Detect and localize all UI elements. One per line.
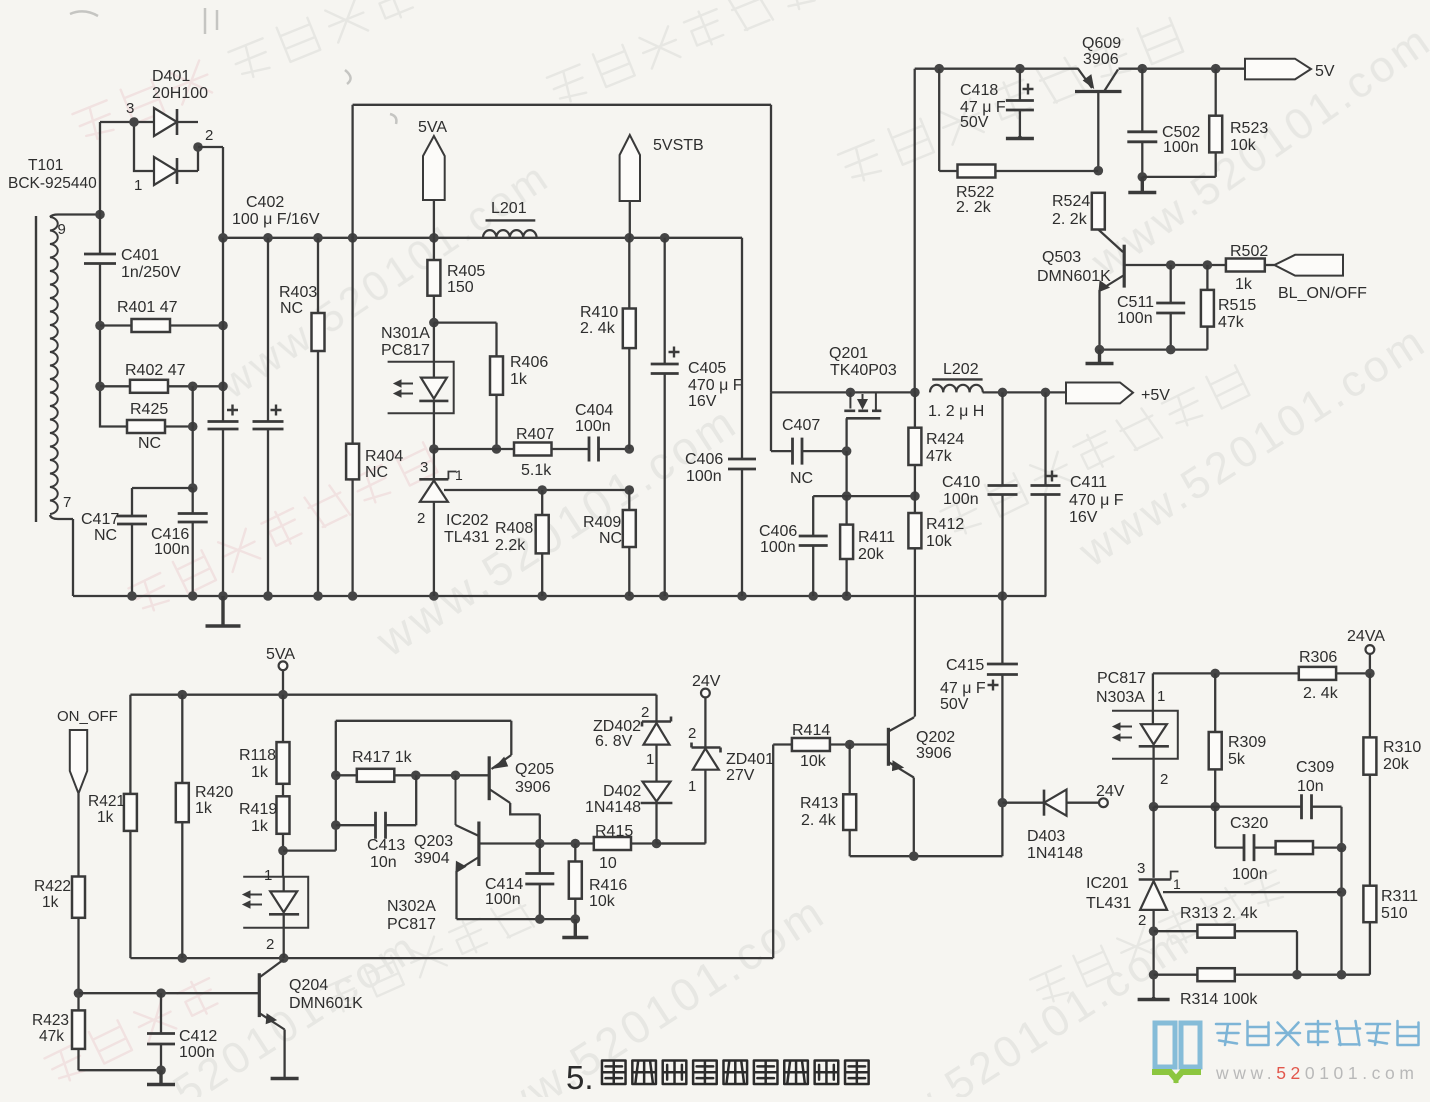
node	[625, 485, 635, 495]
junction	[625, 591, 635, 601]
svg-text:47k: 47k	[926, 448, 953, 465]
wire right edge	[772, 745, 774, 959]
label 5VSTB	[653, 137, 704, 154]
wire	[50, 515, 73, 596]
svg-text:6. 8V: 6. 8V	[595, 733, 633, 750]
junction	[660, 233, 670, 243]
svg-text:R408: R408	[495, 520, 533, 537]
pin 2	[205, 127, 213, 144]
label C404	[575, 402, 613, 435]
capacitor (x268)	[253, 405, 284, 430]
svg-text:5.: 5.	[566, 1059, 594, 1096]
svg-text:R310: R310	[1383, 739, 1421, 756]
wire	[192, 488, 194, 596]
pin 2	[1160, 771, 1168, 788]
svg-text:1k: 1k	[97, 809, 114, 826]
resistor R406	[490, 356, 503, 449]
label N302A	[387, 898, 436, 933]
resistor R425	[127, 420, 193, 433]
svg-text:20k: 20k	[858, 546, 885, 563]
label R405	[447, 263, 485, 296]
label N303A	[1096, 670, 1146, 706]
svg-text:D403: D403	[1027, 828, 1065, 845]
capacitor C406	[728, 238, 756, 596]
zener ZD401	[692, 697, 721, 769]
label Q201	[829, 345, 897, 379]
label C413	[367, 837, 405, 871]
svg-text:NC: NC	[365, 464, 388, 481]
wire 24VA rail	[1153, 672, 1370, 674]
resistor R502	[1226, 259, 1275, 272]
label R414	[792, 722, 830, 770]
svg-text:1k: 1k	[251, 818, 269, 835]
svg-text:1: 1	[688, 778, 696, 795]
svg-text:2.2k: 2.2k	[495, 537, 526, 554]
label R404	[365, 448, 403, 481]
svg-text:10n: 10n	[1297, 778, 1324, 795]
transistor Q204	[259, 960, 284, 1078]
pin 1	[688, 778, 696, 795]
wire	[457, 918, 576, 920]
node	[74, 988, 84, 998]
svg-text:47k: 47k	[39, 1028, 64, 1045]
node	[1149, 926, 1159, 936]
label 5VA	[418, 119, 447, 136]
resistor R314	[1154, 968, 1370, 981]
resistor R524	[1092, 193, 1105, 230]
svg-text:NC: NC	[790, 470, 813, 487]
junction	[313, 591, 323, 601]
caption: 5. secondary switching power supply circuit	[566, 1059, 869, 1096]
svg-text:R421: R421	[88, 793, 125, 810]
svg-text:R407: R407	[516, 426, 554, 443]
label Q204	[289, 977, 363, 1012]
label C418	[960, 82, 1006, 131]
svg-text:R423: R423	[32, 1012, 69, 1029]
svg-text:5VA: 5VA	[266, 646, 295, 663]
node	[652, 839, 662, 849]
svg-text:2. 4k: 2. 4k	[1303, 685, 1339, 702]
node	[1337, 970, 1347, 980]
node	[95, 382, 105, 392]
wire	[99, 265, 101, 387]
svg-text:R306: R306	[1299, 649, 1337, 666]
label R402	[125, 362, 186, 379]
svg-text:R410: R410	[580, 304, 618, 321]
svg-text:R401 47: R401 47	[117, 299, 178, 316]
svg-text:NC: NC	[94, 527, 117, 544]
wire	[983, 391, 1066, 393]
svg-text:1: 1	[646, 751, 654, 768]
label R412	[926, 516, 964, 550]
svg-text:TK40P03: TK40P03	[830, 362, 897, 379]
node	[411, 771, 421, 781]
ground	[271, 1077, 299, 1079]
node	[218, 382, 228, 392]
svg-text:470 μ F: 470 μ F	[1069, 492, 1124, 509]
capacitor C406 (second)	[799, 496, 828, 596]
wire	[132, 488, 193, 596]
wire TL431 ref	[1163, 891, 1342, 893]
diode D401 top	[154, 108, 198, 136]
svg-text:C406: C406	[685, 451, 723, 468]
node	[909, 851, 919, 861]
node	[998, 388, 1008, 398]
label C405	[688, 360, 743, 410]
svg-text:DMN601K: DMN601K	[289, 995, 363, 1012]
svg-text:D402: D402	[603, 783, 641, 800]
optocoupler N303A box	[1112, 711, 1178, 759]
svg-text:ON_OFF: ON_OFF	[57, 708, 118, 725]
svg-text:5VA: 5VA	[418, 119, 447, 136]
node	[535, 914, 545, 924]
wire	[771, 391, 915, 393]
svg-text:100n: 100n	[1117, 310, 1153, 327]
svg-text:3906: 3906	[515, 779, 551, 796]
pin 1	[1157, 688, 1165, 705]
node	[188, 382, 198, 392]
svg-text:16V: 16V	[1069, 509, 1098, 526]
transformer T101 core	[35, 216, 37, 522]
svg-text:R311: R311	[1381, 888, 1418, 905]
node	[1149, 802, 1159, 812]
label R425	[130, 401, 168, 452]
svg-text:7: 7	[63, 494, 71, 511]
label R411	[858, 529, 895, 563]
svg-text:1N4148: 1N4148	[1027, 845, 1083, 862]
capacitor C413	[336, 775, 416, 838]
resistor R423	[72, 1010, 161, 1070]
resistor R309	[1209, 673, 1222, 806]
label T101	[8, 157, 97, 192]
svg-text:100n: 100n	[154, 541, 190, 558]
terminal ON_OFF	[70, 730, 87, 877]
resistor R410	[623, 238, 636, 449]
svg-text:C410: C410	[942, 474, 980, 491]
svg-text:1k: 1k	[195, 800, 213, 817]
svg-text:R309: R309	[1228, 734, 1266, 751]
capacitor C309	[1302, 794, 1312, 819]
svg-text:R313 2. 4k: R313 2. 4k	[1180, 905, 1258, 922]
wire	[100, 386, 127, 426]
pin 1	[264, 867, 272, 884]
ground	[562, 919, 588, 937]
svg-text:PC817: PC817	[1097, 670, 1146, 687]
node	[492, 444, 502, 454]
resistor R407	[514, 443, 552, 456]
label R421	[88, 793, 125, 826]
junction	[348, 233, 358, 243]
svg-text:PC817: PC817	[381, 342, 430, 359]
resistor R408	[536, 490, 549, 596]
wire TL431 ref	[444, 489, 629, 491]
resistor (C320 series)	[1254, 841, 1342, 854]
label R415	[595, 823, 633, 872]
resistor R310	[1363, 673, 1376, 885]
label R413	[800, 795, 838, 829]
svg-text:C417: C417	[81, 511, 119, 528]
optocoupler N302A arrows	[243, 891, 262, 908]
diode D401 bottom	[154, 147, 198, 185]
node	[625, 444, 635, 454]
capacitor C320	[1244, 834, 1254, 861]
resistor R403	[312, 238, 325, 596]
node	[1094, 166, 1104, 176]
svg-text:C406: C406	[759, 523, 797, 540]
node	[1210, 802, 1220, 812]
wire	[813, 495, 915, 497]
label R420	[195, 784, 233, 817]
wire	[222, 238, 224, 596]
svg-text:R413: R413	[800, 795, 838, 812]
svg-text:1k: 1k	[42, 894, 59, 911]
label +5V	[1141, 387, 1170, 404]
svg-text:TL431: TL431	[444, 529, 489, 546]
ground	[147, 1070, 175, 1084]
node D401-2	[193, 142, 203, 152]
svg-text:R416: R416	[589, 877, 627, 894]
label C320	[1230, 815, 1268, 883]
resistor R413	[843, 745, 1002, 857]
wire	[192, 386, 194, 488]
ground	[206, 596, 241, 626]
label R406	[510, 354, 548, 388]
TL431 IC201	[1139, 807, 1179, 997]
capacitor C412	[147, 993, 175, 1070]
pin 2	[688, 725, 696, 742]
svg-text:1: 1	[1157, 688, 1165, 705]
label C402	[232, 194, 320, 228]
svg-text:N303A: N303A	[1096, 689, 1145, 706]
svg-text:R405: R405	[447, 263, 485, 280]
svg-text:2: 2	[688, 725, 696, 742]
wire	[434, 448, 514, 450]
wire	[99, 122, 101, 254]
svg-text:R404: R404	[365, 448, 403, 465]
label R416	[589, 877, 627, 910]
svg-text:100n: 100n	[686, 468, 722, 485]
svg-text:1: 1	[455, 467, 463, 483]
node	[188, 422, 198, 432]
pin 9 label	[58, 221, 66, 238]
node	[188, 483, 198, 493]
terminal 24V	[1099, 798, 1108, 807]
node	[279, 953, 289, 963]
svg-text:10n: 10n	[370, 854, 397, 871]
svg-text:3: 3	[126, 100, 134, 117]
inductor L202	[930, 379, 983, 392]
optocoupler N303A arrows	[1113, 723, 1132, 741]
svg-text:DMN601K: DMN601K	[1037, 268, 1111, 285]
label IC202 pins	[417, 459, 463, 527]
wire	[335, 721, 337, 851]
node	[910, 388, 920, 398]
svg-text:R412: R412	[926, 516, 964, 533]
resistor R411	[840, 496, 853, 596]
junction	[537, 591, 547, 601]
resistor R402	[100, 380, 223, 393]
svg-text:1k: 1k	[1235, 276, 1253, 293]
resistor R405	[427, 238, 440, 323]
svg-text:D401: D401	[152, 68, 190, 85]
svg-text:ZD401: ZD401	[726, 751, 774, 768]
svg-text:C405: C405	[688, 360, 726, 377]
node	[1149, 970, 1159, 980]
label 24V	[1096, 783, 1125, 800]
label 5V	[1315, 63, 1335, 80]
label R502	[1230, 243, 1268, 293]
node	[278, 690, 288, 700]
label R417	[352, 749, 413, 766]
svg-text:C412: C412	[179, 1028, 217, 1045]
svg-text:100n: 100n	[485, 891, 521, 908]
label IC202	[444, 512, 489, 546]
wire	[100, 122, 154, 171]
label C401	[121, 247, 181, 281]
resistor R417	[336, 769, 489, 782]
svg-text:100n: 100n	[179, 1044, 215, 1061]
wire	[50, 215, 100, 218]
wire	[1154, 806, 1302, 808]
svg-text:1n/250V: 1n/250V	[121, 264, 181, 281]
svg-text:C413: C413	[367, 837, 405, 854]
svg-text:2. 4k: 2. 4k	[801, 812, 837, 829]
svg-text:5VSTB: 5VSTB	[653, 137, 704, 154]
label R310	[1383, 739, 1421, 773]
wire	[914, 69, 916, 393]
label R407	[516, 426, 554, 479]
resistor R409	[623, 490, 636, 596]
svg-text:+5V: +5V	[1141, 387, 1170, 404]
svg-text:C407: C407	[782, 417, 820, 434]
svg-text:1: 1	[264, 867, 272, 884]
svg-text:R524: R524	[1052, 193, 1090, 210]
svg-text:IC201: IC201	[1086, 875, 1129, 892]
resistor R306	[1299, 667, 1336, 680]
node	[95, 321, 105, 331]
label R309	[1228, 734, 1266, 768]
label C502	[1162, 124, 1200, 156]
capacitor C511	[1156, 265, 1185, 350]
label C412	[179, 1028, 217, 1061]
wire bottom edge	[130, 957, 773, 959]
node	[1337, 887, 1347, 897]
svg-text:9: 9	[58, 221, 66, 238]
transistor Q609	[1075, 69, 1122, 171]
transformer T101 winding	[50, 217, 58, 514]
svg-text:3: 3	[420, 459, 428, 476]
junction	[808, 591, 818, 601]
svg-text:10k: 10k	[800, 753, 827, 770]
resistor R421	[124, 794, 137, 831]
svg-text:C511: C511	[1117, 294, 1154, 311]
wire	[599, 448, 630, 450]
svg-text:2: 2	[641, 704, 649, 721]
svg-text:C402: C402	[246, 194, 284, 211]
label L202	[928, 361, 984, 420]
svg-text:24V: 24V	[692, 673, 721, 690]
resistor R416	[569, 844, 582, 920]
label Q202	[916, 729, 955, 762]
label R118	[239, 747, 276, 781]
optocoupler N301A arrows	[394, 380, 413, 397]
wire	[1001, 803, 1003, 857]
label C406b	[759, 523, 797, 556]
svg-text:C418: C418	[960, 82, 998, 99]
node	[1166, 260, 1176, 270]
label C417	[81, 511, 119, 544]
capacitor C405	[651, 238, 680, 596]
svg-text:www.520101.com: www.520101.com	[1215, 1063, 1419, 1083]
svg-text:47k: 47k	[1218, 314, 1245, 331]
label IC201 pins	[1137, 860, 1181, 929]
wire top rail	[915, 68, 1245, 70]
svg-text:2: 2	[1138, 912, 1146, 929]
wire	[198, 147, 223, 238]
junction	[1211, 64, 1221, 74]
pin 1	[646, 751, 654, 768]
svg-text:Q201: Q201	[829, 345, 868, 362]
node	[846, 388, 856, 398]
svg-text:Q205: Q205	[515, 761, 554, 778]
svg-text:20H100: 20H100	[152, 85, 208, 102]
svg-text:R118: R118	[239, 747, 276, 764]
svg-text:Q204: Q204	[289, 977, 328, 994]
svg-text:R417 1k: R417 1k	[352, 749, 413, 766]
label D402	[585, 783, 641, 816]
transistor Q203	[456, 775, 479, 919]
node	[331, 820, 341, 830]
wire	[267, 238, 269, 596]
svg-text:1N4148: 1N4148	[585, 799, 641, 816]
svg-text:50V: 50V	[940, 696, 969, 713]
label C406	[685, 451, 723, 485]
svg-text:R406: R406	[510, 354, 548, 371]
svg-text:2. 4k: 2. 4k	[580, 320, 616, 337]
resistor R412	[908, 513, 921, 717]
svg-text:27V: 27V	[726, 767, 755, 784]
junction	[1138, 64, 1148, 74]
label ON_OFF	[57, 708, 118, 725]
label 24VA	[1347, 628, 1385, 645]
svg-text:C415: C415	[946, 657, 984, 674]
svg-text:L202: L202	[943, 361, 979, 378]
capacitor C401	[84, 254, 116, 264]
resistor R522	[939, 69, 1098, 178]
svg-text:NC: NC	[280, 300, 303, 317]
label R424	[926, 431, 964, 465]
wire ground rail	[73, 595, 1046, 597]
label ZD401	[726, 751, 774, 784]
capacitor C418	[1006, 69, 1034, 139]
wire	[79, 992, 259, 994]
node	[1337, 843, 1347, 853]
node	[842, 446, 852, 456]
svg-text:Q202: Q202	[916, 729, 955, 746]
label L201	[491, 200, 527, 217]
label 24V	[692, 673, 721, 690]
svg-text:R422: R422	[34, 878, 71, 895]
node	[278, 846, 288, 856]
label R524	[1052, 193, 1090, 228]
capacitor C410	[988, 392, 1018, 596]
svg-text:10k: 10k	[926, 533, 953, 550]
capacitor C417	[117, 516, 147, 524]
junction	[429, 233, 439, 243]
pin 2	[641, 704, 649, 721]
svg-text:R402 47: R402 47	[125, 362, 186, 379]
junction	[218, 233, 228, 243]
